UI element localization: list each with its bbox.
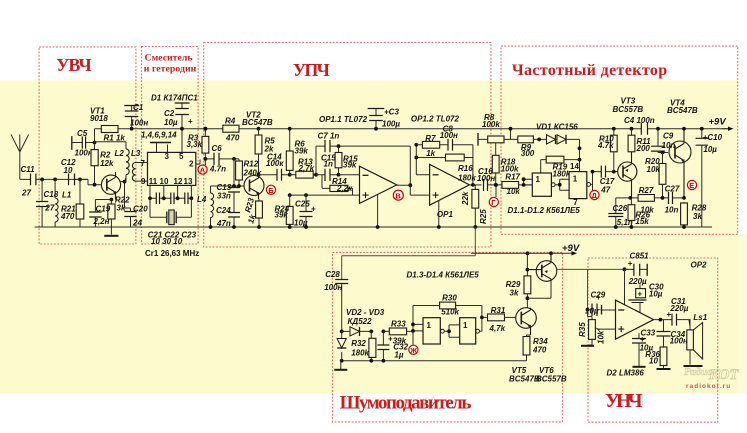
svg-text:7: 7 [141, 159, 146, 168]
resistor R29 [526, 253, 528, 307]
svg-text:+9V: +9V [562, 243, 580, 254]
svg-text:470: 470 [532, 345, 547, 354]
resistor R6 [288, 127, 292, 131]
svg-text:1,4,6,9,14: 1,4,6,9,14 [141, 131, 177, 140]
node Г [495, 185, 497, 197]
+9V top right [722, 128, 728, 130]
transistor VT4 [669, 141, 691, 163]
ground below VT1 [110, 227, 112, 235]
svg-text:39k: 39k [295, 147, 309, 156]
svg-text:3: 3 [165, 152, 170, 161]
capacitor C29 [588, 269, 601, 309]
resistor R5 [257, 127, 261, 131]
svg-text:Ж: Ж [409, 346, 417, 355]
svg-text:510k: 510k [441, 308, 459, 317]
op-amp OP1.2 [430, 164, 470, 205]
svg-text:+: + [638, 290, 643, 299]
svg-text:R35: R35 [578, 322, 587, 337]
top power rail [95, 128, 729, 130]
svg-text:C851: C851 [630, 252, 650, 261]
resistor R15 [338, 146, 340, 175]
svg-text:180k: 180k [458, 174, 476, 183]
svg-text:10n: 10n [665, 206, 679, 215]
gate D1.2 [569, 172, 587, 199]
wire antenna to C11 [20, 178, 88, 180]
gate D1.4 [460, 318, 476, 344]
resistor R10 [612, 127, 616, 131]
diode VD3 [341, 331, 343, 360]
svg-text:2,7k: 2,7k [298, 164, 315, 173]
capacitor C17 [601, 166, 605, 178]
svg-text:Ls1: Ls1 [693, 313, 707, 322]
resistor R24 [289, 195, 291, 227]
antenna [11, 135, 29, 180]
diode VD1 (two in series) [547, 135, 567, 144]
svg-text:470: 470 [60, 212, 75, 221]
box УПЧ [204, 42, 491, 247]
svg-text:33n: 33n [217, 191, 231, 200]
resistor R19 [541, 160, 580, 173]
resistor R32 [369, 330, 373, 334]
resistor R23 [258, 199, 260, 227]
svg-text:10: 10 [64, 166, 73, 175]
svg-text:C20: C20 [133, 205, 148, 214]
svg-text:OP1.1 TL072: OP1.1 TL072 [319, 115, 368, 124]
capacitor C1 with top bar [124, 105, 139, 107]
svg-text:C19: C19 [96, 205, 111, 214]
inductor L3 [132, 163, 135, 182]
capacitor C10 [700, 127, 704, 131]
capacitor C28 [335, 280, 348, 284]
svg-text:В: В [395, 191, 401, 200]
svg-text:12k: 12k [100, 159, 114, 168]
svg-text:C18: C18 [44, 190, 59, 199]
capacitor C2 [175, 102, 190, 104]
capacitor C14 [259, 174, 290, 176]
svg-text:C4 100n: C4 100n [624, 116, 655, 125]
svg-text:11: 11 [149, 177, 158, 186]
svg-text:Г: Г [491, 198, 496, 207]
svg-text:10k: 10k [597, 330, 606, 344]
resistor R4 on rail [223, 125, 239, 132]
svg-text:220µ: 220µ [628, 277, 647, 286]
squelch +9V rail [471, 252, 572, 254]
tank node wire down [232, 157, 236, 161]
output node OP1.2 [469, 184, 481, 186]
ground below R36 [657, 368, 671, 370]
box УВЧ [39, 47, 136, 244]
capacitor C851 [625, 268, 648, 270]
svg-text:39k: 39k [343, 161, 357, 170]
svg-text:4.7n: 4.7n [209, 165, 226, 174]
svg-text:180k: 180k [351, 348, 369, 357]
op-amp OP1.1 [360, 166, 397, 203]
resistor R27 [638, 195, 654, 202]
gate D1.3 [423, 318, 440, 344]
resistor R33 [383, 330, 413, 332]
svg-text:C25: C25 [295, 200, 310, 209]
feedback loop OP1.1: C7 [316, 146, 410, 185]
yellow background [0, 81, 738, 394]
OP1.2 V- stub [438, 201, 440, 227]
svg-text:1k: 1k [426, 149, 435, 158]
svg-text:10µ: 10µ [703, 145, 717, 154]
svg-text:10µ: 10µ [164, 118, 178, 127]
svg-text:220µ: 220µ [669, 304, 688, 313]
resistor R26 [630, 198, 632, 227]
svg-text:R1 1k: R1 1k [104, 134, 126, 143]
svg-text:C24: C24 [216, 206, 231, 215]
OP2 output node [654, 319, 673, 321]
svg-text:D2 LM386: D2 LM386 [607, 369, 645, 378]
capacitor C26 [616, 198, 631, 227]
ground below R35 [581, 345, 594, 347]
capacitor C33 [638, 333, 640, 366]
svg-text:9: 9 [141, 177, 146, 186]
svg-text:9018: 9018 [90, 114, 108, 123]
resistor R14 [322, 175, 353, 195]
svg-text:100µ: 100µ [382, 120, 400, 129]
svg-text:C7 1n: C7 1n [318, 132, 340, 141]
svg-text:1µ: 1µ [394, 351, 403, 360]
op-amp OP2 [616, 300, 654, 339]
svg-text:100k: 100k [482, 120, 500, 129]
VT5 collector junction [527, 281, 551, 298]
squelch ground rail [341, 360, 527, 362]
svg-text:УВЧ: УВЧ [56, 55, 91, 75]
capacitor C32 [382, 330, 386, 334]
svg-text:R25: R25 [479, 209, 488, 224]
svg-text:R4: R4 [225, 117, 236, 126]
svg-text:3,3k: 3,3k [187, 140, 203, 149]
transistor VT6 (PNP) [536, 261, 557, 282]
ground below C33 [633, 366, 646, 368]
svg-text:R33: R33 [391, 319, 406, 328]
resistor R21 [79, 179, 81, 227]
crystal Cr1 [150, 198, 191, 217]
svg-text:+C10: +C10 [703, 133, 723, 142]
box Шумоподавитель [333, 252, 563, 422]
box Частотный детектор [501, 46, 738, 234]
svg-text:100k: 100k [501, 165, 519, 174]
svg-text:13: 13 [184, 177, 193, 186]
svg-text:200: 200 [636, 144, 651, 153]
svg-text:4,7k: 4,7k [489, 324, 506, 333]
svg-text:+9V: +9V [709, 117, 727, 128]
svg-text:C2: C2 [164, 109, 175, 118]
capacitor C15 [316, 174, 339, 176]
capacitor C3 [368, 108, 385, 110]
svg-text:4.7k: 4.7k [597, 141, 614, 150]
squelch feed vertical from R25 [342, 227, 476, 280]
node Е [687, 180, 696, 189]
svg-text:OP2: OP2 [691, 261, 708, 270]
capacitor C24 [228, 213, 240, 218]
box Смеситель и гетеродин [142, 47, 199, 245]
capacitor C21 [156, 193, 159, 205]
resistor R8 with input bar [477, 133, 479, 146]
node: antenna bus junctions [40, 178, 82, 182]
resistor R16 [416, 157, 473, 159]
svg-text:Е: Е [689, 181, 694, 190]
svg-text:15k: 15k [635, 217, 649, 226]
capacitor C30 [639, 285, 641, 289]
svg-text:C26: C26 [613, 204, 628, 213]
node Б [266, 185, 275, 194]
svg-text:D1.3-D1.4 К561ЛЕ5: D1.3-D1.4 К561ЛЕ5 [407, 270, 480, 279]
gate D1.1 [532, 173, 551, 196]
svg-text:L3: L3 [131, 149, 141, 158]
svg-text:C9: C9 [663, 132, 674, 141]
svg-text:180k: 180k [553, 170, 571, 179]
pot R35 [588, 310, 593, 320]
plus input network wire [288, 194, 359, 196]
node VT1 emitter junction [110, 198, 114, 202]
svg-text:10k: 10k [507, 187, 521, 196]
svg-text:2: 2 [189, 160, 194, 169]
capacitor C13 [233, 186, 235, 213]
OP2 V+ lead [624, 269, 626, 305]
svg-text:Б: Б [268, 186, 274, 195]
svg-text:Cr1 26,63 MHz: Cr1 26,63 MHz [145, 249, 199, 258]
svg-text:10: 10 [160, 177, 169, 186]
svg-text:R12: R12 [244, 160, 259, 169]
svg-text:BC547B: BC547B [242, 118, 273, 127]
svg-text:и гетеродин: и гетеродин [144, 64, 197, 75]
resistor R1 [101, 126, 118, 133]
svg-text:+: + [311, 205, 316, 214]
svg-text:12: 12 [174, 177, 183, 186]
D1.2 input bracket [555, 179, 569, 190]
wire VT1 collector to L2 [120, 182, 130, 227]
svg-text:100н: 100н [440, 131, 458, 140]
resistor R11 [630, 127, 634, 131]
svg-text:10: 10 [649, 357, 658, 366]
svg-text:D1.1-D1.2 К561ЛЕ5: D1.1-D1.2 К561ЛЕ5 [508, 206, 581, 215]
svg-text:L2: L2 [115, 149, 125, 158]
svg-text:OP1: OP1 [437, 210, 454, 219]
svg-text:УПЧ: УПЧ [293, 60, 330, 80]
svg-text:1n: 1n [324, 160, 333, 169]
speaker Ls1 [689, 320, 691, 330]
resistor R7 [416, 144, 448, 146]
svg-text:L1: L1 [62, 190, 72, 199]
capacitor C16 [484, 179, 488, 191]
capacitor C12 [69, 174, 75, 186]
svg-text:47n: 47n [216, 219, 231, 228]
svg-text:2,2н: 2,2н [93, 217, 110, 226]
svg-text:300: 300 [521, 149, 535, 158]
wire R13 to OP- [339, 174, 360, 176]
svg-text:R7: R7 [425, 134, 436, 143]
svg-text:1: 1 [536, 175, 541, 184]
svg-text:1: 1 [573, 174, 578, 183]
svg-text:+: + [596, 293, 601, 302]
svg-text:100н: 100н [130, 119, 148, 128]
capacitor C5 with input bar [71, 136, 73, 150]
svg-text:R32: R32 [351, 339, 366, 348]
capacitor C25 [305, 195, 307, 227]
node C5/R2 junction [93, 141, 97, 145]
capacitor C4 on rail [641, 123, 647, 135]
svg-text:Шумоподавитель: Шумоподавитель [340, 393, 472, 414]
capacitor C8 [448, 139, 453, 151]
svg-text:C1: C1 [133, 103, 144, 112]
resistor R13 [290, 174, 316, 176]
svg-text:D1 К174ПС1: D1 К174ПС1 [151, 94, 198, 103]
svg-text:КД522: КД522 [348, 317, 373, 326]
wire VT6 to УНЧ [557, 268, 625, 270]
D1.2 output to C17 [591, 172, 602, 191]
svg-text:24: 24 [132, 219, 142, 228]
svg-text:+: + [188, 117, 193, 126]
svg-text:radiokot.ru: radiokot.ru [686, 383, 731, 390]
resistor R30 feedback [413, 306, 482, 318]
capacitor C27 [669, 192, 673, 204]
capacitor C20 [124, 212, 136, 217]
svg-text:VD2 - VD3: VD2 - VD3 [346, 308, 385, 317]
wire VT3 collector row [630, 197, 684, 199]
D1.3 input node [413, 306, 423, 346]
svg-text:5: 5 [179, 152, 184, 161]
svg-text:Д: Д [592, 191, 598, 200]
OP1.1 V- stub [377, 195, 379, 227]
svg-text:R17: R17 [505, 173, 520, 182]
node В [393, 190, 403, 200]
capacitor C6 [205, 158, 239, 160]
box УНЧ [588, 258, 718, 422]
node R13/C15 junction [314, 173, 318, 177]
inductor L1 [54, 179, 56, 227]
capacitor C34 [663, 320, 665, 347]
svg-text:VD1 КС156: VD1 КС156 [536, 123, 578, 132]
svg-text:Частотный детектор: Частотный детектор [512, 62, 667, 79]
svg-text:10k: 10k [647, 165, 661, 174]
transistor VT1 [101, 175, 120, 194]
svg-text:39k: 39k [393, 336, 407, 345]
svg-text:А: А [200, 166, 206, 175]
svg-text:27: 27 [44, 204, 54, 213]
svg-text:УНЧ: УНЧ [605, 390, 643, 412]
svg-text:10 30 10: 10 30 10 [151, 237, 183, 246]
resistor R25 [474, 185, 476, 227]
inductor L4 [210, 186, 212, 227]
capacitor C18 [41, 179, 43, 227]
svg-text:R31: R31 [491, 306, 506, 315]
OP1.2 feedback left vertical [416, 145, 429, 175]
capacitor C11 [31, 174, 36, 186]
D1.4 output to R31 [480, 317, 488, 331]
transistor VT3 (PNP) [618, 162, 637, 181]
svg-text:BC557B: BC557B [613, 105, 644, 114]
svg-text:C28: C28 [325, 270, 340, 279]
svg-text:3k: 3k [693, 212, 702, 221]
svg-text:100н: 100н [324, 283, 342, 292]
resistor R12 [238, 159, 240, 186]
svg-text:27: 27 [21, 189, 31, 198]
IC bottom pins to C21-C23 chain [150, 185, 191, 198]
svg-text:22k: 22k [461, 191, 470, 206]
svg-text:BC557B: BC557B [536, 375, 567, 384]
D1.1 inputs [524, 179, 533, 185]
svg-text:OP1.2 TL072: OP1.2 TL072 [411, 115, 460, 124]
resistor R28 [683, 202, 685, 227]
capacitor C19 [94, 200, 96, 228]
svg-text:100к: 100к [266, 159, 284, 168]
svg-text:+: + [628, 259, 633, 268]
node A [198, 165, 207, 174]
svg-text:R16: R16 [458, 164, 473, 173]
capacitor C22 [171, 193, 174, 205]
svg-text:100н: 100н [670, 337, 688, 346]
resistor R34 [527, 335, 531, 361]
svg-text:C27: C27 [665, 184, 680, 193]
svg-text:C11: C11 [21, 165, 36, 174]
svg-text:10n: 10n [662, 141, 676, 150]
node Ж [409, 345, 418, 354]
node Д [590, 190, 599, 199]
resistor R22 [108, 204, 115, 219]
svg-text:1: 1 [463, 321, 468, 330]
scalloped bottom edge of yellow [0, 393, 747, 396]
watermark РадиоКОТ [684, 366, 739, 390]
IC D1 K174ПС1 [148, 152, 196, 185]
resistor R9 [518, 136, 534, 143]
svg-text:L4: L4 [197, 195, 207, 204]
diode VD2 [340, 330, 344, 334]
D1.4 input bracket [444, 325, 459, 337]
svg-text:BC547B: BC547B [667, 106, 698, 115]
resistor R3 [204, 127, 208, 131]
yellow sliver right [738, 234, 747, 394]
svg-text:C6: C6 [212, 144, 223, 153]
transistor VT5 [516, 308, 537, 329]
svg-text:10µ: 10µ [649, 289, 663, 298]
bottom rail [35, 226, 712, 228]
svg-text:14: 14 [570, 162, 579, 171]
ground symbol squelch [340, 361, 342, 369]
svg-text:100н: 100н [75, 148, 93, 157]
svg-text:R30: R30 [442, 293, 457, 302]
resistor R2 [94, 143, 96, 185]
OP1.1 output node [408, 183, 412, 187]
svg-text:47: 47 [600, 186, 610, 195]
pin2 wire to node A [196, 160, 200, 165]
svg-text:Смеситель: Смеситель [145, 52, 193, 63]
svg-text:470: 470 [225, 134, 240, 143]
svg-text:1: 1 [427, 321, 432, 330]
svg-text:39k: 39k [275, 211, 289, 220]
svg-text:C5: C5 [77, 129, 88, 138]
resistor R18 [495, 139, 497, 185]
svg-text:100н: 100н [477, 174, 495, 183]
transistor VT2 [244, 176, 264, 196]
capacitor C31 [672, 314, 677, 326]
resistor R36 [660, 347, 667, 366]
svg-text:2,2к: 2,2к [336, 184, 353, 193]
inductor L2 [95, 142, 127, 149]
svg-text:+: + [640, 335, 645, 344]
svg-text:R27: R27 [639, 186, 654, 195]
svg-text:+C3: +C3 [384, 108, 399, 117]
svg-text:3k: 3k [510, 289, 519, 298]
resistor R17 [502, 182, 519, 189]
capacitor C23 [185, 193, 188, 205]
resistor R20 [661, 151, 665, 155]
capacitor C9 [656, 127, 660, 131]
svg-text:КОТ: КОТ [708, 367, 739, 383]
ground below Ls1 [689, 350, 691, 365]
